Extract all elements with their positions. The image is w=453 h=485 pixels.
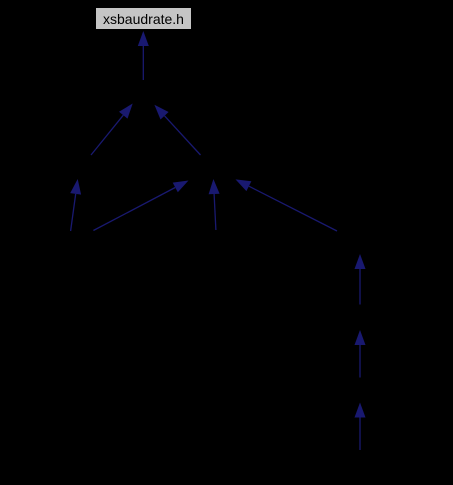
edge B: row3 left node -> row2 node (diagonal up-right) <box>91 104 133 156</box>
node xsbaudrate.h (current file, grey box) <box>96 8 192 30</box>
edge F: row4 middle node -> row3 right node (vertical arrow) <box>209 179 220 230</box>
svg-text:xsbaudrate.h: xsbaudrate.h <box>103 11 184 27</box>
edge I: row6 node -> row5 node (vertical arrow) <box>355 330 366 378</box>
edge D: row4 left node -> row3 left node (near-vertical arrow) <box>70 179 81 231</box>
edge H: row5 node -> row4 right node (vertical arrow) <box>355 254 366 305</box>
edge C: row3 right node -> row2 node (diagonal up-left) <box>154 105 200 155</box>
edge A: row2 node -> xsbaudrate.h (vertical arrow) <box>138 31 149 80</box>
edge E: row4 left node -> row3 right node (long shallow diagonal) <box>93 181 188 231</box>
edge J: row7 node -> row6 node (vertical arrow) <box>355 403 366 451</box>
edge G: row4 right node -> row3 right node (long diagonal up-left) <box>236 179 338 231</box>
